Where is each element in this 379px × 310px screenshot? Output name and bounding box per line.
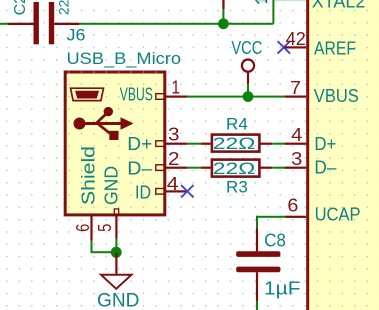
junction top (218, 18, 229, 29)
svg-text:VCC: VCC (231, 38, 262, 58)
wire pin6 to junction (91, 241, 117, 253)
svg-text:GND: GND (97, 290, 139, 310)
no-connect X at AREF pin (278, 41, 290, 53)
svg-text:USB_B_Micro: USB_B_Micro (67, 49, 182, 68)
wire to XTAL2 (vertical at x=273.4) (272, 0, 306, 24)
resistor R4 (201, 135, 272, 152)
svg-text:VBUS: VBUS (314, 86, 359, 106)
USB receptacle icon (71, 88, 104, 100)
svg-text:D+: D+ (127, 134, 152, 154)
ground symbol (101, 252, 131, 288)
svg-text:J6: J6 (67, 25, 86, 44)
svg-text:7: 7 (290, 78, 301, 98)
svg-text:2: 2 (168, 149, 180, 169)
power symbol VCC (242, 60, 254, 97)
wire D+ left (187, 143, 201, 145)
IC pin 6 UCAP (286, 216, 307, 218)
svg-text:Shield: Shield (79, 146, 99, 205)
svg-text:6: 6 (73, 224, 93, 232)
svg-text:3: 3 (291, 149, 302, 169)
svg-text:22Ω: 22Ω (213, 134, 256, 153)
IC pin 4 D+ (285, 143, 307, 145)
svg-text:GND: GND (101, 166, 121, 205)
pin 1 VBUS of J6 (156, 94, 188, 100)
svg-text:VBUS: VBUS (120, 85, 153, 105)
wire D+ right (272, 143, 285, 145)
svg-text:UCAP: UCAP (315, 205, 361, 225)
svg-text:R3: R3 (226, 177, 248, 196)
svg-text:1µF: 1µF (264, 279, 301, 299)
svg-text:22p: 22p (56, 0, 72, 15)
IC pin 7 VBUS (285, 96, 307, 98)
wire below C8 (256, 301, 258, 310)
svg-text:4: 4 (291, 125, 302, 145)
junction GND (111, 247, 122, 258)
pin 4 ID of J6 (156, 189, 188, 195)
IC U1 body (right side, partially visible) (306, 0, 379, 310)
svg-text:D–: D– (314, 158, 336, 178)
svg-text:22Ω: 22Ω (213, 159, 256, 178)
no-connect X at ID pin (181, 185, 193, 197)
svg-text:XTAL2: XTAL2 (312, 0, 366, 11)
svg-text:6: 6 (287, 195, 298, 215)
wire D- left (187, 167, 201, 169)
junction VCC/VBUS (243, 91, 254, 102)
wire top net XTAL1 horizontal (0, 23, 273, 25)
connector J6 USB_B_Micro body (65, 72, 165, 215)
svg-text:C8: C8 (264, 231, 286, 251)
crystal label fragment (cut at top) (255, 0, 267, 4)
svg-text:AREF: AREF (314, 38, 356, 58)
resistor R3 (201, 160, 272, 177)
wire UCAP net (256, 216, 286, 229)
svg-text:3: 3 (168, 125, 180, 145)
capacitor C8 (236, 229, 280, 302)
wire D- right (272, 167, 285, 169)
svg-text:ID: ID (135, 182, 151, 202)
wire VBUS net (187, 96, 284, 98)
wire stub to crystal (vertical at x=223.4) (222, 0, 224, 24)
wire pin5 to junction (115, 239, 117, 253)
pin 2 D- of J6 (156, 165, 188, 171)
svg-text:D–: D– (127, 159, 152, 179)
IC pin 42 AREF (285, 46, 307, 48)
svg-text:42: 42 (286, 29, 306, 49)
pin 6 Shield of J6 (bottom) (90, 214, 92, 241)
svg-text:R4: R4 (226, 115, 248, 134)
IC pin 3 D- (285, 167, 307, 169)
svg-text:5: 5 (95, 224, 115, 232)
svg-text:D+: D+ (314, 134, 336, 154)
pin 3 D+ of J6 (156, 141, 188, 147)
pin 5 GND of J6 (bottom) (114, 209, 118, 239)
capacitor C2x (8, 2, 79, 44)
svg-text:4: 4 (167, 174, 179, 194)
svg-text:C22: C22 (12, 0, 29, 15)
svg-text:1: 1 (172, 77, 181, 97)
USB trident icon (74, 107, 134, 140)
